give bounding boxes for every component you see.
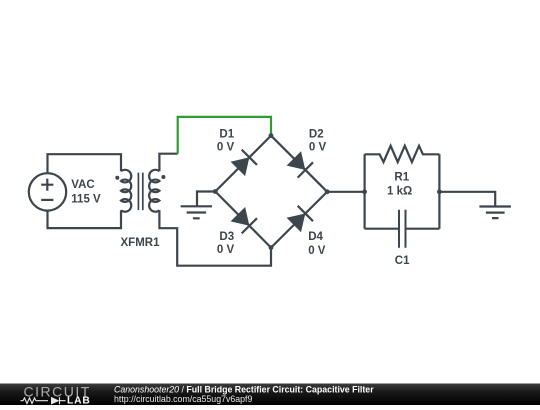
wire secondary top green net to bridge top node (178, 117, 271, 154)
diode D1 cathode bar (242, 150, 257, 165)
diode D4 cathode bar (298, 206, 313, 221)
transformer core (138, 173, 142, 211)
resistor R1 zigzag (365, 146, 440, 162)
wire right rail to ground (439, 192, 495, 207)
svg-text:0 V: 0 V (217, 142, 235, 154)
diode D3 (231, 207, 250, 226)
diode D3 cathode bar (242, 218, 257, 233)
svg-text:0 V: 0 V (217, 244, 235, 256)
wire VAC bottom to primary bottom (48, 210, 122, 228)
diode D1 (231, 157, 250, 176)
ground left (bridge reference) (181, 192, 216, 219)
svg-text:D3: D3 (219, 231, 234, 243)
wire secondary bottom to bridge bottom node (159, 210, 271, 265)
diode D2 (287, 151, 306, 170)
svg-text:115 V: 115 V (71, 193, 101, 205)
node top (269, 133, 274, 138)
transformer secondary phase dot (161, 175, 165, 179)
svg-text:D4: D4 (308, 231, 323, 243)
svg-text:LAB: LAB (67, 395, 91, 405)
capacitor C1 plates (399, 210, 406, 248)
transformer primary phase dot (115, 176, 119, 180)
transformer XFMR1 secondary winding (149, 170, 159, 212)
logo diode triangle (51, 397, 60, 405)
wire VAC top to primary top (48, 154, 122, 173)
bridge diamond wires (215, 136, 327, 248)
ground right (479, 207, 511, 219)
VAC plus sign (41, 179, 53, 191)
node RC right rail (437, 189, 442, 194)
node RC left rail (362, 189, 367, 194)
node right (325, 189, 330, 194)
wire RC right rail (438, 154, 440, 228)
wire bridge right node to RC network (327, 191, 364, 193)
diode D2 cathode bar (298, 162, 313, 177)
logo schematic squiggle: resistor + diode (21, 397, 66, 404)
svg-text:VAC: VAC (71, 179, 94, 191)
svg-text:XFMR1: XFMR1 (121, 237, 161, 249)
svg-text:Canonshooter20 / Full Bridge R: Canonshooter20 / Full Bridge Rectifier C… (114, 385, 374, 395)
wire capacitor branch leads (365, 228, 440, 230)
svg-text:D1: D1 (219, 129, 234, 141)
svg-text:R1: R1 (394, 172, 409, 184)
source VAC circle (29, 173, 66, 210)
node bottom (269, 245, 274, 250)
svg-text:0 V: 0 V (309, 142, 327, 154)
VAC minus sign (41, 199, 53, 201)
svg-text:1 kΩ: 1 kΩ (387, 185, 412, 197)
wire secondary top (159, 154, 177, 172)
node left (213, 189, 218, 194)
transformer XFMR1 primary winding (121, 170, 131, 212)
wire RC left rail (364, 154, 366, 228)
diode D4 (287, 214, 306, 233)
svg-text:D2: D2 (309, 129, 324, 141)
svg-text:0 V: 0 V (308, 245, 326, 257)
svg-text:C1: C1 (395, 255, 410, 267)
svg-text:http://circuitlab.com/ca55ug7v: http://circuitlab.com/ca55ug7v6apf9 (114, 394, 252, 404)
